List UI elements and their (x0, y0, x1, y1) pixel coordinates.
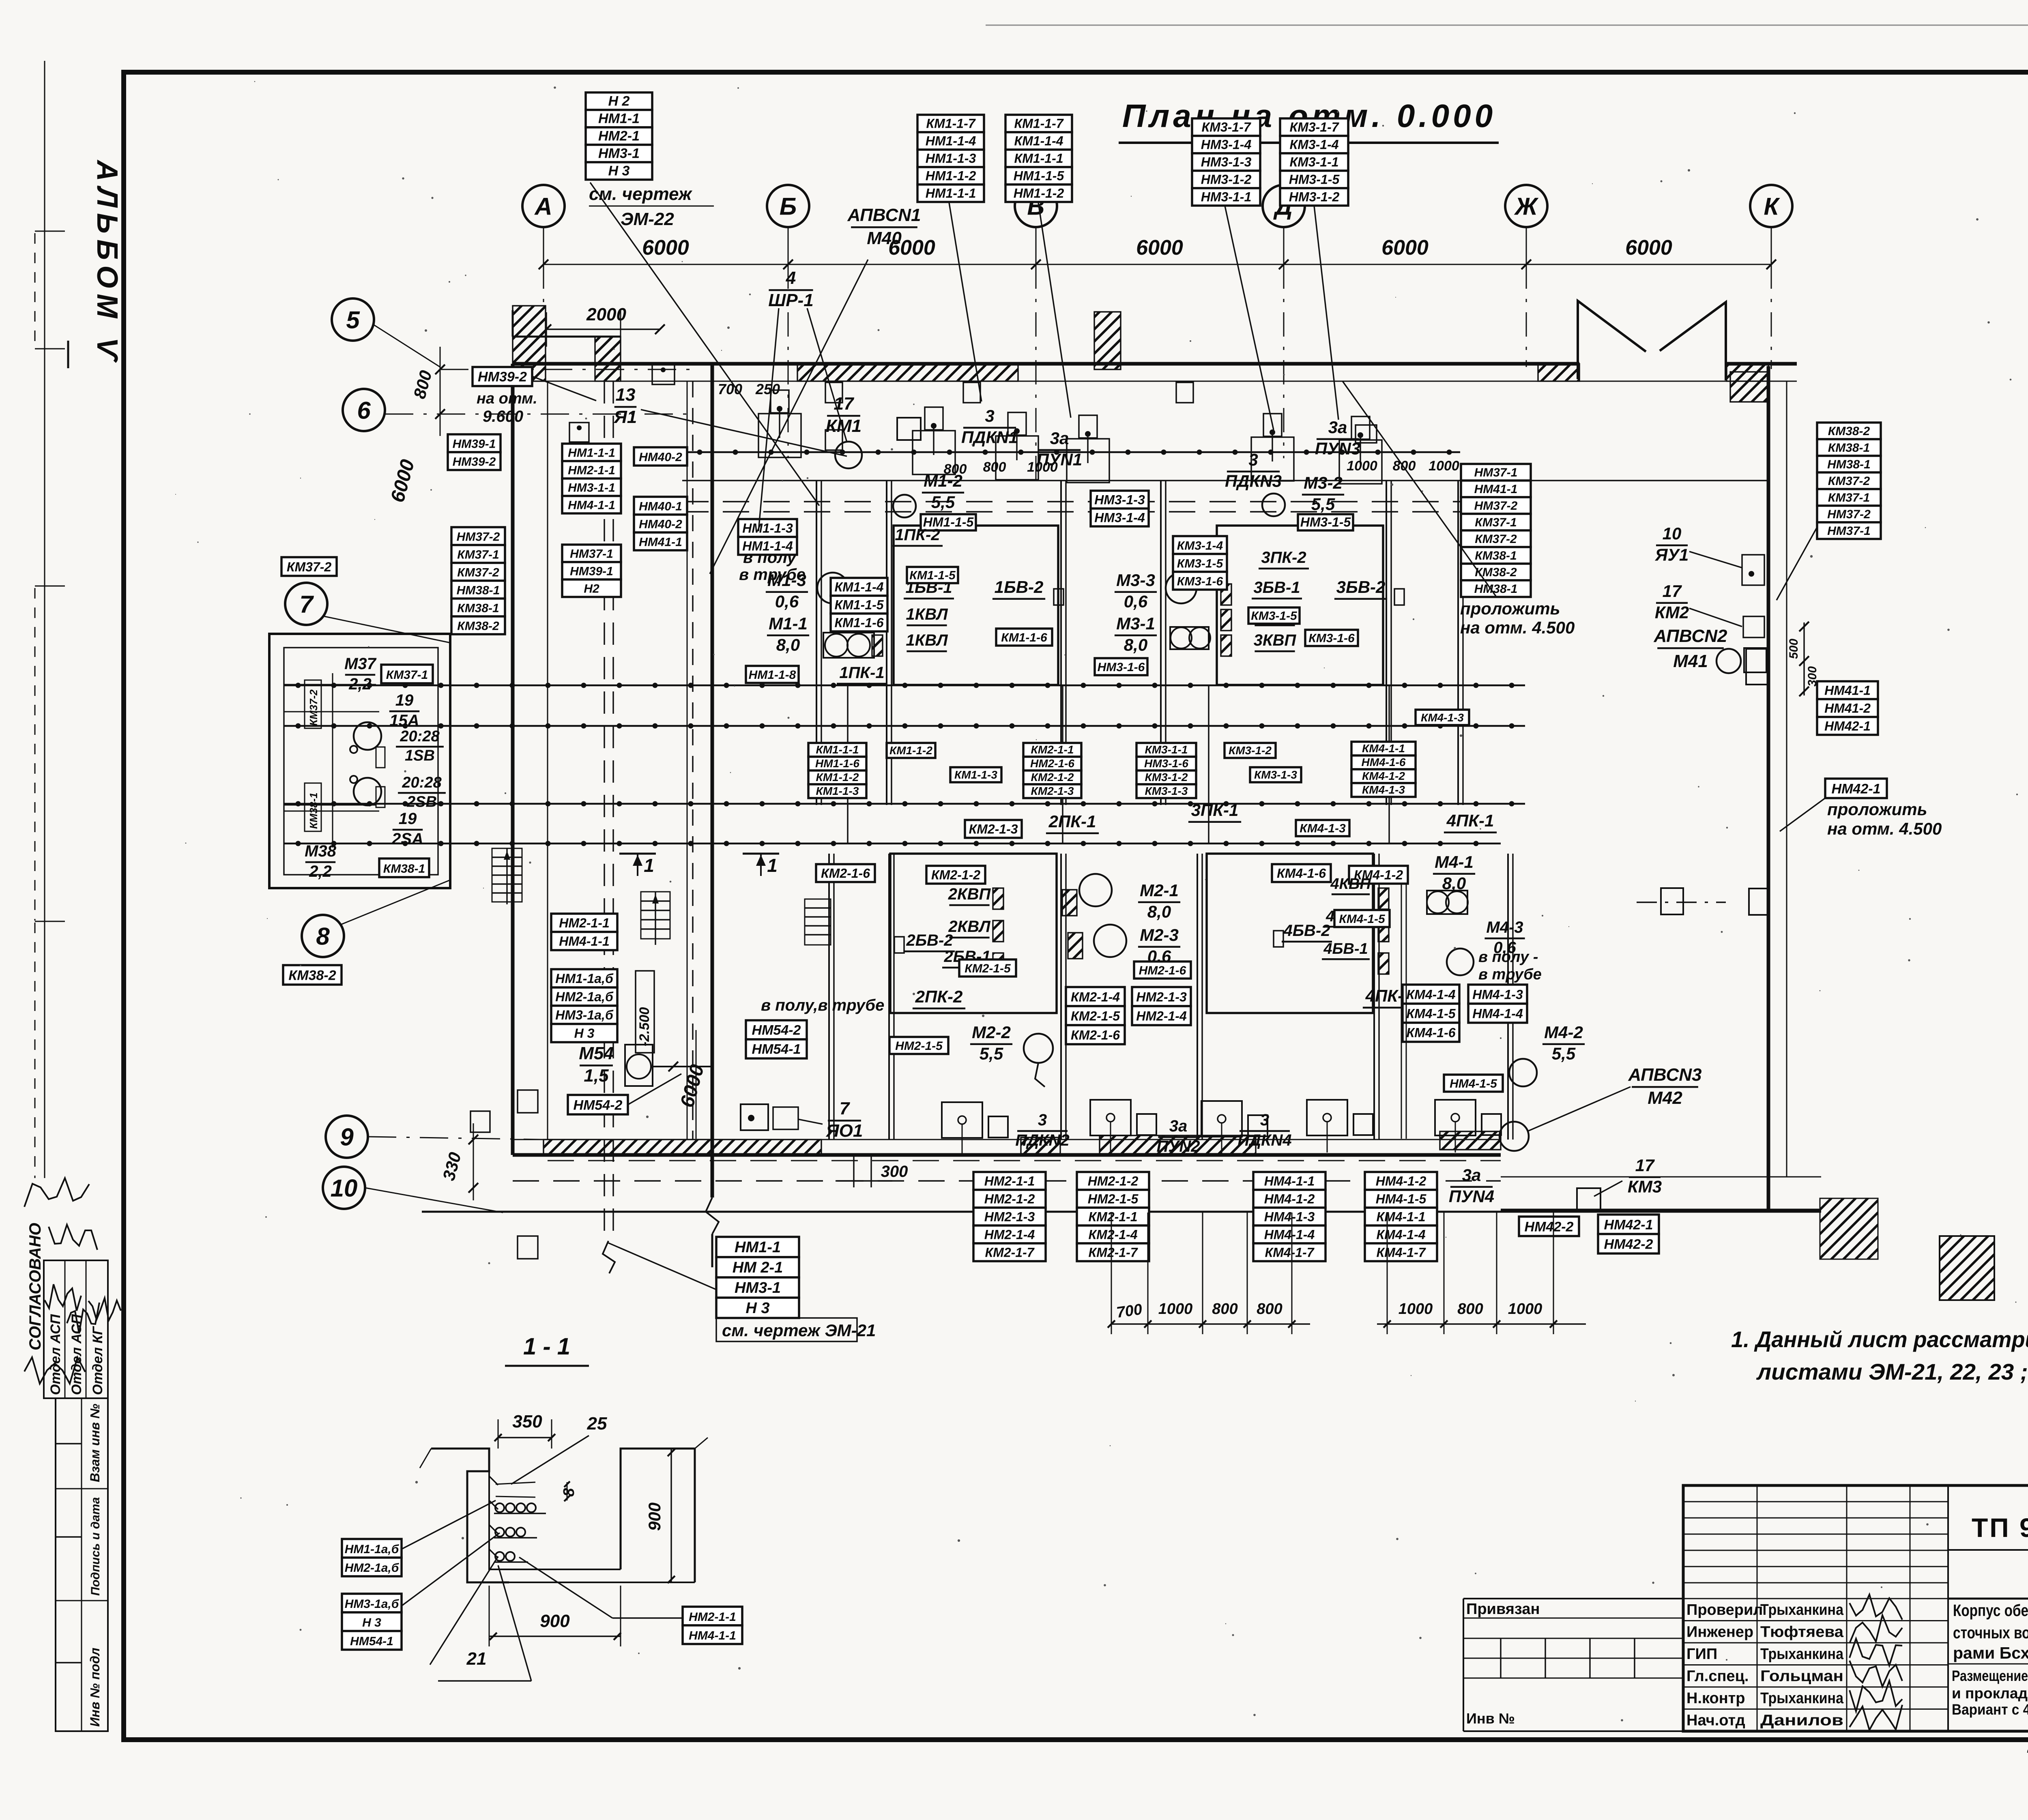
svg-text:Трыханкина: Трыханкина (1760, 1601, 1844, 1618)
svg-text:1000: 1000 (1399, 1301, 1433, 1318)
grid axis circle Ж (1505, 185, 1547, 227)
svg-text:НМ1-1: НМ1-1 (735, 1239, 781, 1256)
pump М4-3 (1447, 949, 1474, 975)
grate symbol bay2 (805, 899, 831, 945)
svg-text:КМ2: КМ2 (1655, 603, 1689, 622)
svg-text:1000: 1000 (1508, 1301, 1542, 1318)
svg-text:см. чертеж: см. чертеж (589, 184, 693, 204)
svg-text:17: 17 (1663, 582, 1682, 601)
pump М1-3 (817, 573, 848, 603)
svg-text:КМ3-1-7: КМ3-1-7 (1289, 120, 1339, 135)
svg-text:КМ2-1-2: КМ2-1-2 (1031, 771, 1074, 783)
label 1ПК-2 (892, 526, 943, 546)
section cut marks 1 (619, 853, 656, 855)
svg-text:КМ3-1-6: КМ3-1-6 (1308, 631, 1355, 645)
label 4КВП (1330, 876, 1371, 894)
svg-text:КМ2-1-5: КМ2-1-5 (965, 962, 1011, 975)
grid axis circle 7 (285, 583, 327, 625)
label stack НМ39-12 (448, 434, 501, 470)
corridor dashed cable pair (604, 381, 605, 1241)
svg-text:КМ1-1-2: КМ1-1-2 (889, 744, 932, 757)
label 7 ЯО1 (826, 1099, 863, 1141)
svg-text:КМ3-1-5: КМ3-1-5 (1177, 557, 1224, 570)
svg-text:3а: 3а (1328, 418, 1347, 437)
svg-text:НМ1-1-1: НМ1-1-1 (568, 446, 615, 460)
svg-text:1000: 1000 (1347, 458, 1377, 474)
pedestal unit 3 (996, 436, 1038, 480)
svg-text:25: 25 (587, 1414, 607, 1434)
svg-text:ПДКN2: ПДКN2 (1015, 1131, 1069, 1149)
svg-text:3а: 3а (1050, 429, 1069, 448)
svg-text:НМ41-1: НМ41-1 (639, 535, 682, 549)
svg-text:НМ3-1-3: НМ3-1-3 (1094, 492, 1145, 507)
svg-text:5,5: 5,5 (1552, 1044, 1576, 1063)
svg-text:НМ1-1-2: НМ1-1-2 (1014, 186, 1064, 201)
svg-text:20:28: 20:28 (402, 774, 442, 791)
right wall (1767, 366, 1770, 1212)
svg-text:2,2: 2,2 (309, 863, 332, 880)
cable tray north band (685, 451, 1460, 453)
svg-text:КМ1-1-1: КМ1-1-1 (816, 743, 859, 756)
svg-text:5,5: 5,5 (980, 1044, 1003, 1063)
svg-text:КМ4-1-7: КМ4-1-7 (1265, 1245, 1315, 1260)
cable tray 1 (284, 685, 1525, 687)
label М3-2 5,5 (1302, 473, 1344, 514)
svg-text:17: 17 (834, 394, 855, 414)
svg-text:900: 900 (645, 1502, 664, 1531)
svg-text:КМ2-1-3: КМ2-1-3 (1031, 785, 1074, 797)
svg-text:Привязан: Привязан (1466, 1601, 1540, 1618)
svg-text:4БВ-1: 4БВ-1 (1323, 940, 1368, 957)
svg-text:КМ2-1-1: КМ2-1-1 (1031, 743, 1074, 756)
label stack КМ2-1 mid (1023, 743, 1081, 798)
svg-text:НМ1-1-4: НМ1-1-4 (926, 134, 976, 148)
svg-text:1,5: 1,5 (584, 1066, 609, 1086)
grid axis circle Д (1263, 185, 1305, 227)
dim 330 left (473, 1123, 474, 1200)
svg-text:800: 800 (944, 461, 967, 477)
svg-text:НМ54-2: НМ54-2 (574, 1097, 623, 1113)
svg-text:КМ4-1-6: КМ4-1-6 (1406, 1026, 1455, 1040)
см. чертеж ЭМ-21 (716, 1318, 857, 1341)
pump М1-2 (893, 495, 916, 517)
svg-text:1БВ-2: 1БВ-2 (995, 577, 1044, 597)
svg-text:КМ3-1-7: КМ3-1-7 (1201, 120, 1251, 135)
svg-text:НМ54-2: НМ54-2 (752, 1023, 801, 1038)
svg-text:Отдел АСП: Отдел АСП (69, 1313, 84, 1395)
svg-text:700: 700 (718, 381, 742, 397)
bay partition x2616 (1060, 481, 1062, 805)
svg-text:НМ2-1а,б: НМ2-1а,б (555, 989, 614, 1004)
svg-text:3ПК-2: 3ПК-2 (1261, 549, 1306, 567)
upper-left annex walls (513, 336, 621, 338)
label stack КМ1-1-7a (917, 115, 984, 202)
svg-text:КМ37-2: КМ37-2 (1828, 474, 1870, 488)
svg-text:НМ4-1-3: НМ4-1-3 (1264, 1209, 1315, 1224)
grid axis circle 8 (302, 915, 344, 957)
svg-text:КМ3-1-2: КМ3-1-2 (1145, 771, 1188, 783)
label 3ПК-2 (1259, 549, 1309, 569)
svg-text:НМ1-1-1: НМ1-1-1 (926, 186, 976, 201)
lower bay partition x2952 (1197, 854, 1198, 1140)
svg-text:М40: М40 (867, 228, 902, 248)
dim 900 vertical (670, 1449, 672, 1582)
label 3БВ-1 (1252, 579, 1302, 599)
label 4БВ-1 (1322, 940, 1370, 959)
svg-text:6000: 6000 (1136, 236, 1183, 260)
right wall boxes (1742, 555, 1764, 585)
svg-text:КМ38-1: КМ38-1 (1828, 441, 1870, 455)
svg-text:М2-1: М2-1 (1140, 881, 1179, 900)
label 1БВ-2 (993, 577, 1045, 599)
section wall face hatch (489, 1476, 498, 1485)
grid axis circle К (1750, 185, 1792, 227)
svg-text:НМ2-1-1: НМ2-1-1 (689, 1610, 736, 1624)
svg-text:М37: М37 (344, 655, 377, 673)
dim 2000 (546, 328, 660, 330)
svg-text:НМ3-1-4: НМ3-1-4 (1201, 137, 1252, 152)
label 3КВП (1254, 631, 1297, 651)
svg-text:НМ2-1-3: НМ2-1-3 (1136, 990, 1187, 1004)
lower bay partition x2044 (828, 854, 830, 1140)
svg-text:КМ2-1-6: КМ2-1-6 (1071, 1028, 1120, 1043)
svg-text:НМ3-1-6: НМ3-1-6 (1144, 757, 1188, 770)
svg-text:3БВ-2: 3БВ-2 (1336, 577, 1386, 597)
svg-text:ПУN2: ПУN2 (1157, 1137, 1200, 1155)
corridor cable pair (687, 381, 688, 1140)
svg-text:Н.контр: Н.контр (1686, 1690, 1745, 1707)
axis 7 leader (324, 616, 450, 643)
label 4 ШР-1 (768, 268, 814, 310)
svg-text:20:28: 20:28 (400, 728, 440, 745)
svg-text:АПВСN3: АПВСN3 (1628, 1065, 1701, 1085)
north room band lower line (682, 480, 1768, 481)
vertical text АЛЬБОМ V (91, 159, 123, 366)
pedestal unit 2 (913, 431, 955, 474)
svg-text:3: 3 (985, 406, 994, 425)
М4-3 floor run (1401, 884, 1402, 1139)
svg-text:1SB: 1SB (405, 747, 435, 764)
svg-text:3: 3 (1248, 450, 1258, 469)
svg-text:1. Данный лист рассматривать с: 1. Данный лист рассматривать совместно с (1731, 1326, 2028, 1352)
svg-text:КМ1-1-2: КМ1-1-2 (816, 771, 859, 783)
south pedestal 4 (1307, 1100, 1347, 1135)
svg-text:НМ4-1-5: НМ4-1-5 (1376, 1191, 1427, 1206)
pump М3-2 (1262, 494, 1285, 516)
label 3а ПУН2 (1157, 1117, 1200, 1155)
svg-text:КМ1-1-7: КМ1-1-7 (926, 116, 976, 131)
svg-text:НМ42-1: НМ42-1 (1604, 1217, 1653, 1232)
left stamp dept table (44, 1260, 108, 1398)
svg-text:КМ37-2: КМ37-2 (457, 566, 499, 579)
svg-text:Корпус обезвоживания осадков: Корпус обезвоживания осадков (1953, 1601, 2028, 1620)
label 1КВЛ2 (906, 631, 948, 651)
svg-text:КМ3-1-3: КМ3-1-3 (1254, 768, 1297, 781)
label 3а ПУ3 (1315, 418, 1360, 458)
svg-text:21: 21 (466, 1649, 487, 1669)
svg-text:1 - 1: 1 - 1 (523, 1333, 570, 1360)
cable tray 2 (284, 725, 1525, 727)
svg-text:Размещение электрооборудования: Размещение электрооборудования (1952, 1668, 2028, 1684)
grid axis circle 6 (343, 389, 385, 431)
filter box 2БВ (890, 854, 1057, 1013)
svg-text:см. чертеж ЭМ-21: см. чертеж ЭМ-21 (722, 1321, 876, 1340)
bay partition x2013 (816, 481, 817, 805)
label М4-1 8,0 (1433, 852, 1475, 893)
svg-text:НМ2-1-5: НМ2-1-5 (1088, 1191, 1139, 1206)
label stack КМ1-1 mid (808, 743, 866, 798)
pump М4-2 (1509, 1059, 1537, 1086)
rotated level -2.500 (636, 971, 654, 1053)
svg-text:6000: 6000 (1625, 236, 1672, 260)
svg-text:800: 800 (1457, 1301, 1483, 1318)
label М1-2 5,5 (922, 471, 964, 512)
svg-text:КМ38-1: КМ38-1 (1475, 549, 1517, 562)
svg-text:3: 3 (1260, 1111, 1269, 1129)
box Я1 (652, 364, 675, 384)
svg-text:КМ37-2: КМ37-2 (307, 689, 320, 726)
svg-text:2ПК-1: 2ПК-1 (1048, 812, 1096, 831)
svg-text:рами Бсх ОУ-40-3.0: рами Бсх ОУ-40-3.0 (1953, 1644, 2028, 1662)
filter box 4БВ (1207, 854, 1373, 1013)
svg-text:КМ37-1: КМ37-1 (457, 548, 499, 561)
pedestal unit 1 (758, 414, 801, 457)
label stack НМ4-1-34 (1468, 985, 1527, 1023)
svg-text:КМ37-1: КМ37-1 (1475, 516, 1517, 529)
svg-text:на отм.: на отм. (477, 390, 537, 407)
pedestal unit 5 (1251, 437, 1294, 481)
svg-text:НМ39-2: НМ39-2 (478, 369, 527, 385)
small wall boxes north (825, 382, 842, 403)
svg-text:КМ3-1-3: КМ3-1-3 (1145, 785, 1188, 797)
title block left mini grid (1683, 1501, 1948, 1502)
label stack НМ1-1 эм21 (716, 1237, 799, 1318)
axis drop line А (543, 264, 544, 308)
svg-text:М4-3: М4-3 (1486, 919, 1523, 936)
svg-text:Гл.спец.: Гл.спец. (1686, 1668, 1749, 1685)
top wall hatched segments (797, 364, 1018, 381)
switch boxes 2 (993, 888, 1003, 909)
svg-text:Подпись и дата: Подпись и дата (89, 1497, 102, 1596)
svg-text:4КВП: 4КВП (1330, 876, 1371, 893)
label 20:28 2SB (398, 774, 446, 811)
svg-text:Гольцман: Гольцман (1760, 1668, 1843, 1685)
label stack КМ1-1-456 (831, 578, 887, 631)
south pedestal 1 (942, 1102, 982, 1138)
svg-text:КМ3-1-2: КМ3-1-2 (1229, 744, 1272, 757)
svg-text:250: 250 (755, 381, 780, 397)
svg-text:ПУN3: ПУN3 (1315, 439, 1360, 458)
svg-text:КМ4-1-3: КМ4-1-3 (1362, 783, 1405, 796)
dim 6000 vertical top-left (440, 369, 441, 410)
svg-text:НМ1-1-8: НМ1-1-8 (749, 668, 796, 682)
svg-text:2КВЛ: 2КВЛ (948, 918, 991, 936)
svg-text:Инв №: Инв № (1466, 1710, 1515, 1727)
bay partition x3418 (1386, 481, 1387, 805)
axis drop line К (1771, 264, 1772, 369)
label 17 КМ1 (826, 394, 861, 436)
svg-text:НМ41-2: НМ41-2 (1824, 701, 1871, 715)
svg-text:КМ2-1-4: КМ2-1-4 (1071, 990, 1120, 1004)
svg-text:0,6: 0,6 (775, 592, 799, 611)
axis drop line Ж (1526, 264, 1527, 367)
svg-text:НМ3-1-5: НМ3-1-5 (1289, 172, 1340, 187)
svg-text:8,0: 8,0 (776, 635, 800, 655)
svg-text:1: 1 (644, 855, 654, 876)
section 1-1 left wall (431, 1449, 509, 1582)
svg-text:КМ4-1-3: КМ4-1-3 (1421, 711, 1464, 724)
top wall of main building (513, 362, 1579, 366)
svg-text:М38: М38 (305, 842, 337, 860)
label М54 1,5 (579, 1043, 614, 1086)
svg-text:НМ40-1: НМ40-1 (639, 500, 682, 513)
svg-text:Трыханкина: Трыханкина (1760, 1690, 1844, 1707)
svg-text:17: 17 (1635, 1156, 1655, 1175)
label stack КМ4-1 mid (1351, 742, 1416, 797)
annex wires (284, 684, 376, 685)
svg-text:8,0: 8,0 (1147, 902, 1171, 921)
svg-text:М2-2: М2-2 (972, 1023, 1011, 1042)
label М2-1 8,0 (1138, 881, 1180, 921)
svg-text:НМ1-1-4: НМ1-1-4 (742, 539, 793, 553)
svg-text:3ПК-1: 3ПК-1 (1191, 801, 1239, 820)
svg-text:КМ3-1-5: КМ3-1-5 (1251, 609, 1298, 622)
label 3 ПДКН1 (961, 406, 1018, 447)
svg-text:НМ39-2: НМ39-2 (453, 455, 496, 468)
axis 10 leader (365, 1188, 503, 1213)
switch boxes 4 (1378, 888, 1389, 909)
annex outer wall (269, 634, 450, 888)
label 10 ЯУ1 (1655, 524, 1689, 564)
svg-text:КМ1-1-7: КМ1-1-7 (1014, 116, 1064, 131)
svg-text:9.600: 9.600 (483, 408, 523, 425)
label stack НМ54-12 (746, 1020, 807, 1058)
svg-text:КМ2-1-5: КМ2-1-5 (1071, 1009, 1120, 1024)
svg-text:Я1: Я1 (614, 407, 637, 427)
label 17 КМ2 (1655, 582, 1689, 622)
svg-text:НМ2-1-1: НМ2-1-1 (984, 1174, 1035, 1188)
svg-text:Б: Б (780, 193, 797, 220)
svg-text:4ПК-1: 4ПК-1 (1446, 811, 1494, 830)
svg-text:500: 500 (1787, 639, 1800, 659)
svg-text:2БВ-2: 2БВ-2 (906, 931, 953, 949)
svg-text:АЛЬБОМ Ѵ: АЛЬБОМ Ѵ (91, 159, 123, 366)
svg-text:800: 800 (1393, 458, 1416, 474)
stairs symbol corridor (641, 892, 670, 939)
svg-text:6000: 6000 (642, 236, 689, 260)
rotated label КМ37-2 in annex (305, 680, 321, 728)
svg-text:800: 800 (1212, 1301, 1237, 1318)
title block left extension (1463, 1598, 1683, 1599)
label 1КВЛ (906, 605, 948, 625)
svg-text:Инженер: Инженер (1686, 1624, 1753, 1641)
south-east room wall (1501, 1176, 1821, 1178)
grid axis circle 5 (332, 298, 374, 341)
svg-text:6: 6 (357, 397, 371, 424)
svg-text:М4-2: М4-2 (1544, 1023, 1583, 1042)
label 2ПК-2 (913, 987, 965, 1009)
svg-text:КМ4-1-1: КМ4-1-1 (1362, 742, 1405, 755)
svg-text:К: К (1764, 193, 1781, 220)
svg-text:800: 800 (983, 459, 1006, 475)
svg-text:НМ3-1-4: НМ3-1-4 (1094, 510, 1145, 525)
axis 5 leader (373, 324, 440, 367)
svg-text:НМ3-1-1: НМ3-1-1 (568, 481, 615, 495)
label stack КМ1-1-7b (1005, 115, 1072, 202)
pedestal unit 6 (1339, 440, 1382, 484)
svg-text:НМ54-1: НМ54-1 (752, 1042, 801, 1057)
svg-text:НМ1-1: НМ1-1 (598, 111, 640, 127)
label stack НМ42 bottom (1598, 1215, 1659, 1253)
svg-text:ЯУ1: ЯУ1 (1655, 545, 1689, 564)
axis 6 leader (385, 414, 690, 415)
svg-text:НМ40-2: НМ40-2 (639, 517, 682, 531)
svg-text:ЭМ-22: ЭМ-22 (621, 209, 674, 229)
НМ42-1 проложить (1825, 779, 1887, 798)
svg-text:КМ3-1-1: КМ3-1-1 (1145, 743, 1188, 756)
svg-text:КМ4-1-1: КМ4-1-1 (1376, 1209, 1425, 1224)
annex inner partitions (284, 711, 379, 713)
svg-text:НМ2-1: НМ2-1 (598, 129, 640, 144)
svg-text:в полу,в трубе: в полу,в трубе (761, 996, 884, 1014)
axis drop line Б (788, 264, 789, 458)
svg-text:19: 19 (395, 691, 414, 709)
label М1-3 0,6 (766, 571, 808, 611)
pump М3-3 (1166, 573, 1197, 603)
svg-text:Вариант с 4 вакуум-фильтрами: Вариант с 4 вакуум-фильтрами (1952, 1701, 2028, 1718)
svg-text:НМ39-1: НМ39-1 (570, 565, 613, 578)
svg-text:КМ37-2: КМ37-2 (1475, 532, 1517, 546)
svg-text:НМ37-1: НМ37-1 (570, 547, 613, 561)
svg-text:КМ2-1-7: КМ2-1-7 (1088, 1245, 1138, 1260)
svg-text:М42: М42 (1648, 1088, 1682, 1108)
svg-text:НМ3-1а,б: НМ3-1а,б (555, 1008, 614, 1022)
label stack НМ41 right (1817, 681, 1878, 735)
label 3 ПДКН3 (1225, 450, 1282, 491)
svg-text:НМ42-1: НМ42-1 (1824, 719, 1871, 733)
label 2КВЛ (948, 918, 991, 938)
section 1-1 channel (489, 1471, 621, 1569)
label 3ПК-1 (1188, 801, 1241, 822)
svg-text:НМ2-1-6: НМ2-1-6 (1139, 964, 1186, 977)
svg-text:НМ2-1а,б: НМ2-1а,б (345, 1561, 400, 1575)
svg-text:проложить: проложить (1827, 800, 1927, 819)
svg-text:КМ2-1-2: КМ2-1-2 (931, 867, 980, 882)
label stack НМ1-1аб (342, 1539, 402, 1576)
svg-text:НМ3-1: НМ3-1 (598, 146, 640, 161)
svg-text:1ПК-1: 1ПК-1 (839, 664, 884, 682)
svg-text:НМ4-1-5: НМ4-1-5 (1450, 1077, 1497, 1090)
dash-dot mark right room (1661, 888, 1683, 914)
svg-text:НМ3-1-5: НМ3-1-5 (1300, 515, 1351, 529)
south pedestal 3 (1201, 1101, 1242, 1137)
lower bay partition x3718 (1507, 854, 1509, 1140)
cable tray 4 (284, 843, 1501, 845)
grid axis circle Б (767, 185, 809, 227)
svg-text:НМ4-1-3: НМ4-1-3 (1472, 987, 1523, 1002)
svg-text:НМ3-1-6: НМ3-1-6 (1098, 661, 1145, 674)
svg-text:7: 7 (299, 591, 314, 618)
svg-text:НМ4-1-1: НМ4-1-1 (568, 499, 615, 512)
svg-text:1000: 1000 (1158, 1301, 1193, 1318)
label 4ПК-1 (1444, 811, 1497, 833)
title block frame (1683, 1485, 2028, 1731)
svg-text:7: 7 (840, 1099, 851, 1118)
svg-text:НМ4-1-1: НМ4-1-1 (1264, 1174, 1315, 1188)
svg-text:НМ37-1: НМ37-1 (1827, 524, 1871, 538)
axis drop line Д (1283, 264, 1285, 458)
grid axis circle А (522, 185, 565, 227)
